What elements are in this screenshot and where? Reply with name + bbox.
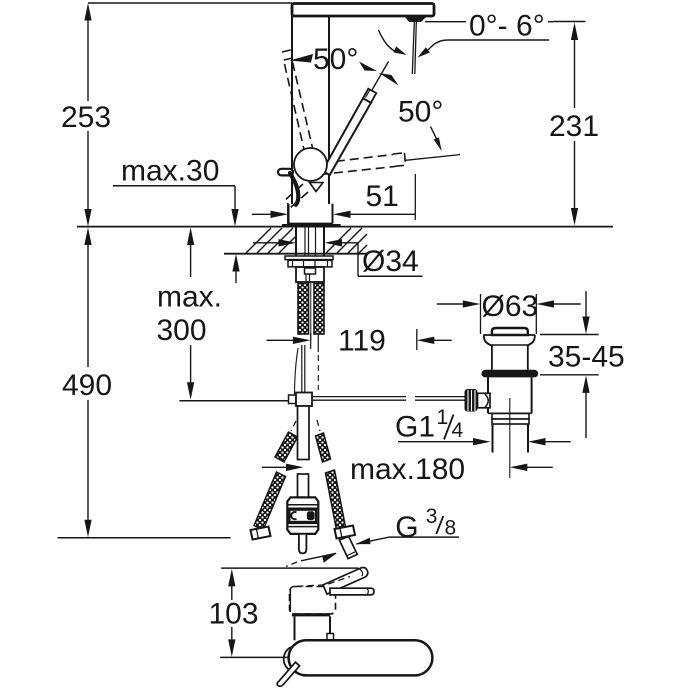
svg-text:max.180: max.180 — [350, 453, 465, 486]
svg-text:50°: 50° — [398, 96, 443, 129]
svg-text:3: 3 — [426, 505, 438, 528]
svg-text:51: 51 — [366, 180, 399, 213]
svg-text:Ø34: Ø34 — [362, 245, 419, 278]
svg-text:0°- 6°: 0°- 6° — [469, 10, 545, 43]
svg-text:max.30: max.30 — [121, 155, 219, 188]
svg-text:119: 119 — [338, 325, 386, 358]
svg-text:8: 8 — [445, 517, 457, 540]
svg-text:490: 490 — [62, 369, 112, 402]
svg-text:103: 103 — [209, 598, 259, 631]
svg-text:G1: G1 — [395, 411, 435, 444]
svg-text:300: 300 — [157, 314, 207, 347]
svg-text:50°: 50° — [313, 43, 358, 76]
svg-text:231: 231 — [549, 110, 599, 143]
svg-text:4: 4 — [452, 419, 464, 442]
svg-text:1: 1 — [437, 406, 449, 429]
svg-text:max.: max. — [157, 280, 222, 313]
svg-text:Ø63: Ø63 — [482, 290, 539, 323]
svg-text:253: 253 — [61, 101, 111, 134]
svg-text:G: G — [395, 511, 418, 544]
svg-text:35-45: 35-45 — [548, 341, 625, 374]
